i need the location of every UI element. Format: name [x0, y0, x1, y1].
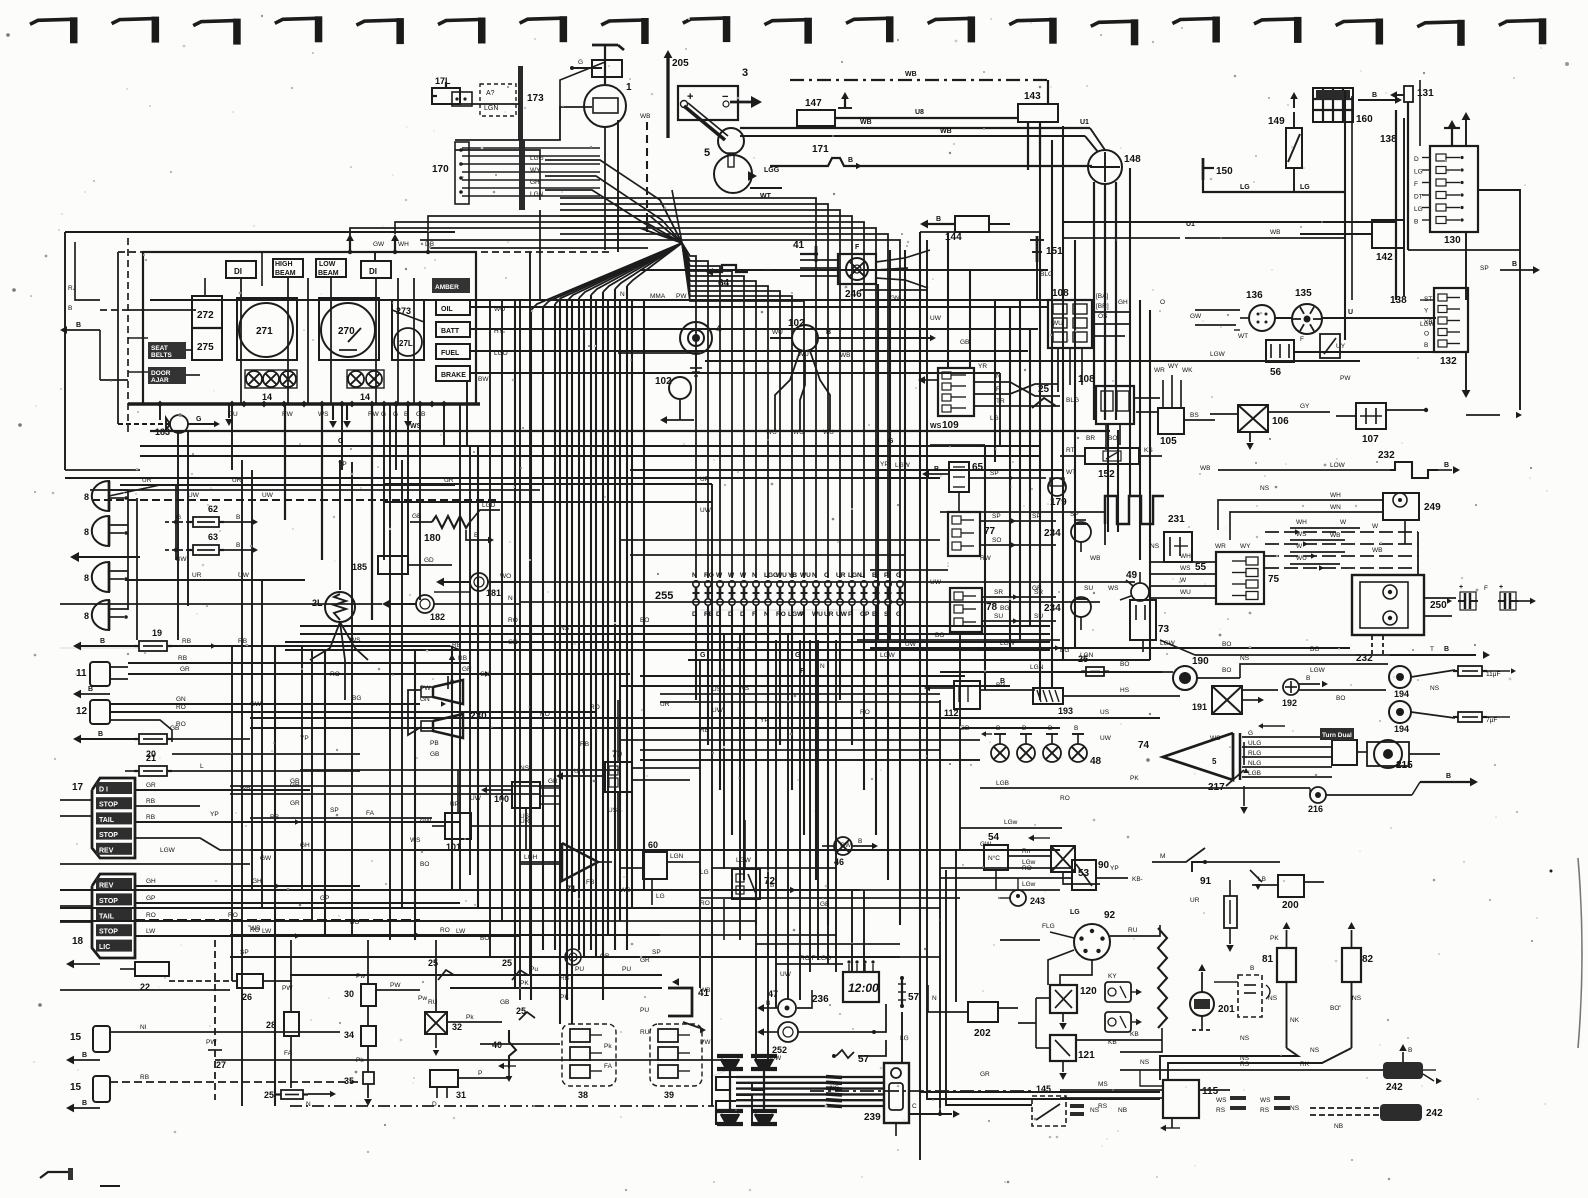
svg-text:GB: GB	[960, 339, 969, 346]
svg-text:C: C	[912, 1103, 917, 1110]
svg-text:LGW: LGW	[1420, 321, 1436, 328]
svg-text:SP: SP	[992, 513, 1001, 520]
svg-text:RO: RO	[1060, 795, 1070, 802]
svg-text:115: 115	[1202, 1086, 1219, 1097]
svg-text:BO: BO	[935, 632, 944, 639]
svg-text:60: 60	[648, 840, 658, 850]
svg-text:GH: GH	[252, 878, 262, 885]
svg-text:RO: RO	[590, 704, 600, 711]
svg-text:171: 171	[812, 144, 829, 155]
svg-text:B: B	[1074, 725, 1078, 732]
svg-text:GR: GR	[980, 1071, 990, 1078]
svg-text:WY: WY	[1168, 363, 1179, 370]
svg-text:YB: YB	[788, 572, 797, 579]
svg-text:RO: RO	[776, 611, 786, 618]
svg-text:UH: UH	[574, 768, 584, 775]
svg-text:LG: LG	[1414, 206, 1423, 213]
svg-text:D: D	[1414, 156, 1419, 163]
svg-text:102: 102	[655, 376, 672, 387]
svg-text:FA: FA	[366, 810, 375, 817]
svg-text:BO: BO	[1108, 435, 1117, 442]
svg-text:B: B	[1424, 342, 1428, 349]
svg-text:FUEL: FUEL	[441, 350, 460, 357]
svg-text:138: 138	[1390, 295, 1407, 306]
svg-text:PW: PW	[676, 293, 687, 300]
svg-text:B: B	[936, 216, 941, 223]
svg-text:PW: PW	[420, 685, 431, 692]
svg-text:LG: LG	[1300, 184, 1310, 191]
svg-text:WK: WK	[1182, 367, 1193, 374]
svg-text:NB: NB	[1334, 1123, 1343, 1130]
svg-text:O: O	[1424, 331, 1429, 338]
svg-text:FA: FA	[604, 1063, 613, 1070]
svg-text:N: N	[820, 663, 825, 670]
svg-text:NS: NS	[1268, 995, 1278, 1002]
svg-text:U: U	[1348, 309, 1353, 316]
svg-text:UW: UW	[780, 971, 792, 978]
svg-text:BR: BR	[1086, 435, 1095, 442]
svg-text:NS: NS	[1240, 1035, 1250, 1042]
svg-text:UW: UW	[188, 492, 200, 499]
svg-text:STOP: STOP	[99, 832, 118, 839]
svg-text:90: 90	[1098, 860, 1110, 871]
svg-text:18: 18	[72, 936, 84, 947]
svg-text:LGW: LGW	[1000, 640, 1016, 647]
svg-text:WY: WY	[530, 167, 541, 174]
svg-text:132: 132	[1440, 356, 1457, 367]
svg-text:MMA: MMA	[650, 293, 666, 300]
svg-text:112: 112	[944, 708, 959, 718]
svg-text:G: G	[896, 572, 901, 579]
svg-text:LGN: LGN	[530, 191, 544, 198]
svg-text:DOOR: DOOR	[151, 370, 171, 377]
svg-text:RB: RB	[146, 814, 155, 821]
svg-text:GH: GH	[146, 878, 156, 885]
svg-text:LGW: LGW	[1310, 667, 1326, 674]
svg-text:149: 149	[1268, 116, 1285, 127]
svg-text:255: 255	[655, 590, 673, 602]
svg-text:GY: GY	[1300, 403, 1310, 410]
svg-text:F: F	[1484, 585, 1488, 592]
svg-text:RO: RO	[860, 709, 870, 716]
svg-text:WU: WU	[800, 572, 811, 579]
svg-text:BO: BO	[420, 861, 429, 868]
svg-text:236: 236	[812, 994, 829, 1005]
svg-text:LGB: LGB	[996, 780, 1009, 787]
svg-text:UR: UR	[824, 611, 834, 618]
svg-text:WB: WB	[940, 128, 952, 135]
svg-text:G: G	[700, 652, 706, 659]
svg-text:UR: UR	[836, 572, 846, 579]
svg-text:W: W	[1180, 577, 1187, 584]
svg-text:LG: LG	[1070, 909, 1080, 916]
svg-text:108: 108	[1078, 374, 1095, 385]
svg-text:NK: NK	[1290, 1017, 1300, 1024]
svg-text:105: 105	[1160, 436, 1177, 447]
svg-text:B: B	[82, 1100, 87, 1107]
svg-text:WS: WS	[930, 423, 942, 430]
svg-text:GW: GW	[770, 1055, 782, 1062]
svg-text:147: 147	[805, 98, 822, 109]
svg-text:Rn: Rn	[1022, 848, 1031, 855]
svg-text:RW: RW	[282, 411, 294, 418]
svg-text:15: 15	[70, 1032, 82, 1043]
svg-text:+: +	[1499, 584, 1503, 591]
svg-text:NS: NS	[560, 625, 570, 632]
svg-text:PU: PU	[640, 1007, 649, 1014]
svg-text:UR: UR	[1190, 897, 1200, 904]
svg-text:NS: NS	[1150, 543, 1160, 550]
svg-text:LGN: LGN	[484, 105, 498, 112]
svg-text:WB: WB	[1330, 532, 1340, 539]
svg-text:ULG: ULG	[1248, 740, 1261, 747]
svg-text:WS: WS	[1180, 565, 1191, 572]
svg-text:D: D	[728, 611, 733, 618]
svg-text:MS: MS	[1098, 1081, 1108, 1088]
svg-text:NS: NS	[1260, 485, 1270, 492]
svg-text:US: US	[1100, 709, 1110, 716]
svg-text:BW: BW	[478, 376, 489, 383]
svg-text:GH: GH	[1118, 299, 1128, 306]
svg-text:LGB: LGB	[1248, 770, 1261, 777]
svg-text:B: B	[872, 611, 877, 618]
svg-text:7μF: 7μF	[1486, 717, 1497, 724]
svg-text:LOW: LOW	[1330, 462, 1346, 469]
svg-text:RO: RO	[176, 704, 186, 711]
svg-text:GB: GB	[430, 751, 439, 758]
svg-text:48: 48	[1090, 756, 1102, 767]
svg-text:B: B	[82, 1052, 87, 1059]
svg-text:BG: BG	[352, 695, 361, 702]
svg-text:182: 182	[430, 612, 445, 622]
svg-text:RB: RB	[580, 741, 589, 748]
svg-text:REV: REV	[99, 847, 114, 854]
svg-text:LGW: LGW	[880, 652, 896, 659]
svg-text:WU: WU	[772, 329, 783, 336]
svg-text:41: 41	[793, 240, 805, 251]
svg-text:192: 192	[1282, 698, 1297, 708]
svg-text:B: B	[236, 514, 240, 521]
svg-text:B: B	[1372, 92, 1377, 99]
svg-text:152: 152	[1098, 469, 1115, 480]
svg-text:G: G	[196, 416, 202, 423]
svg-text:5: 5	[1212, 757, 1217, 766]
svg-text:25: 25	[264, 1090, 274, 1100]
svg-text:WS: WS	[1108, 585, 1119, 592]
svg-text:NS: NS	[1310, 1047, 1320, 1054]
svg-text:NS: NS	[740, 685, 750, 692]
svg-text:121: 121	[1078, 1050, 1095, 1061]
svg-text:RLG: RLG	[1248, 750, 1261, 757]
svg-text:107: 107	[1362, 434, 1379, 445]
svg-text:W: W	[740, 572, 747, 579]
svg-text:NS: NS	[1140, 1059, 1150, 1066]
svg-text:U8: U8	[915, 109, 924, 116]
svg-text:1: 1	[626, 82, 632, 93]
svg-text:194: 194	[1394, 724, 1409, 734]
svg-text:B: B	[1512, 261, 1517, 268]
svg-text:11: 11	[76, 668, 87, 679]
svg-text:W: W	[728, 572, 735, 579]
svg-text:GR: GR	[548, 778, 558, 785]
svg-text:92: 92	[1104, 910, 1116, 921]
svg-text:UW: UW	[930, 315, 942, 322]
svg-text:232: 232	[1378, 450, 1395, 461]
svg-text:Pk: Pk	[604, 1043, 612, 1050]
svg-text:T: T	[1430, 646, 1434, 653]
svg-text:WR: WR	[1215, 543, 1226, 550]
svg-text:UW: UW	[930, 579, 942, 586]
svg-text:150: 150	[1216, 166, 1233, 177]
svg-text:KS: KS	[1144, 447, 1153, 454]
svg-text:G: G	[1248, 730, 1253, 737]
svg-text:RB: RB	[700, 727, 709, 734]
svg-text:WR: WR	[1154, 367, 1165, 374]
svg-text:BG: BG	[1060, 647, 1069, 654]
svg-text:U1: U1	[1080, 119, 1089, 126]
svg-text:19: 19	[152, 628, 162, 638]
svg-text:P: P	[478, 1070, 482, 1077]
svg-text:OS: OS	[1098, 313, 1108, 320]
svg-text:KB-: KB-	[1132, 876, 1143, 883]
svg-text:N°C: N°C	[988, 854, 1000, 862]
svg-text:YP: YP	[760, 717, 769, 724]
svg-text:WB: WB	[860, 119, 872, 126]
svg-text:SP: SP	[330, 807, 339, 814]
svg-text:81: 81	[1262, 954, 1274, 965]
svg-text:UW: UW	[836, 611, 848, 618]
svg-text:193: 193	[1058, 706, 1073, 716]
svg-text:UW: UW	[470, 795, 482, 802]
svg-text:PW: PW	[390, 982, 401, 989]
svg-text:B: B	[872, 572, 877, 579]
svg-text:PU: PU	[575, 966, 584, 973]
svg-text:8: 8	[84, 611, 89, 621]
svg-text:8: 8	[84, 573, 89, 583]
svg-text:100: 100	[494, 794, 509, 804]
svg-text:NB: NB	[1118, 1107, 1127, 1114]
svg-text:63: 63	[208, 532, 218, 542]
svg-text:RT: RT	[1066, 447, 1075, 454]
svg-text:LG: LG	[656, 893, 665, 900]
svg-text:NS: NS	[1290, 1105, 1300, 1112]
svg-text:56: 56	[1270, 367, 1282, 378]
svg-text:WY: WY	[1240, 543, 1251, 550]
svg-text:DI: DI	[234, 267, 242, 276]
svg-text:LGW: LGW	[895, 462, 911, 469]
svg-text:LW: LW	[456, 928, 466, 935]
svg-text:YP: YP	[300, 735, 309, 742]
svg-text:RS: RS	[1260, 1107, 1270, 1114]
svg-text:15: 15	[70, 1082, 82, 1093]
svg-text:BS: BS	[1190, 412, 1199, 419]
svg-text:242: 242	[1386, 1082, 1403, 1093]
svg-text:BO: BO	[480, 935, 489, 942]
svg-text:WU: WU	[1180, 589, 1191, 596]
svg-text:TAIL: TAIL	[99, 817, 115, 824]
svg-text:RO: RO	[440, 927, 450, 934]
svg-text:246: 246	[845, 289, 862, 300]
svg-text:135: 135	[1295, 288, 1312, 299]
svg-text:Y: Y	[1424, 308, 1429, 315]
svg-text:WU: WU	[812, 611, 823, 618]
svg-text:RS: RS	[1098, 1103, 1108, 1110]
svg-text:OIL: OIL	[441, 306, 453, 313]
svg-text:215: 215	[1396, 760, 1413, 771]
svg-text:RJ: RJ	[68, 285, 76, 292]
svg-text:STOP: STOP	[99, 898, 118, 905]
svg-text:Pw: Pw	[418, 995, 427, 1002]
svg-text:GR: GR	[290, 778, 300, 785]
svg-text:WB: WB	[840, 352, 850, 359]
svg-text:GB: GB	[412, 513, 421, 520]
svg-text:8: 8	[84, 492, 89, 502]
svg-text:WN: WN	[1330, 504, 1341, 511]
svg-text:PU: PU	[622, 966, 631, 973]
svg-text:GN: GN	[890, 295, 900, 302]
svg-text:SR: SR	[994, 589, 1003, 596]
svg-text:N: N	[752, 572, 757, 579]
svg-text:SP: SP	[990, 470, 999, 477]
svg-text:N: N	[306, 1101, 311, 1108]
svg-text:FLG: FLG	[1042, 923, 1055, 930]
svg-text:202: 202	[974, 1028, 991, 1039]
svg-text:GW: GW	[373, 241, 385, 248]
svg-text:LG: LG	[1240, 184, 1250, 191]
svg-text:GR: GR	[180, 666, 190, 673]
svg-text:NS: NS	[1090, 1107, 1100, 1114]
svg-text:275: 275	[197, 342, 214, 353]
svg-text:27L: 27L	[399, 339, 413, 348]
svg-text:SEAT: SEAT	[151, 345, 168, 352]
svg-text:F: F	[855, 244, 860, 251]
svg-text:PW: PW	[282, 985, 293, 992]
svg-text:242: 242	[1426, 1108, 1443, 1119]
svg-text:2L: 2L	[312, 598, 323, 608]
svg-text:WS: WS	[410, 837, 421, 844]
svg-text:SU: SU	[1084, 585, 1093, 592]
svg-text:WB: WB	[1090, 555, 1100, 562]
svg-text:B: B	[1306, 675, 1310, 682]
svg-text:BATT: BATT	[441, 328, 460, 335]
svg-text:LGN: LGN	[670, 853, 684, 860]
svg-text:34: 34	[344, 1030, 354, 1040]
svg-text:N: N	[692, 572, 697, 579]
svg-text:73: 73	[1158, 624, 1170, 635]
svg-text:21: 21	[146, 753, 156, 763]
svg-text:LGw: LGw	[1022, 859, 1036, 866]
svg-text:W: W	[1340, 519, 1347, 526]
svg-text:GD: GD	[424, 557, 434, 564]
svg-text:GH: GH	[530, 179, 540, 186]
svg-text:270: 270	[338, 326, 355, 337]
svg-text:194: 194	[1394, 689, 1409, 699]
svg-text:W: W	[716, 572, 723, 579]
svg-text:SU: SU	[1034, 613, 1043, 620]
svg-text:35: 35	[344, 1076, 354, 1086]
svg-text:GP: GP	[860, 611, 870, 618]
svg-text:RS: RS	[1216, 1107, 1226, 1114]
svg-text:148: 148	[1124, 154, 1141, 165]
svg-text:UW: UW	[905, 641, 917, 648]
svg-text:GW: GW	[420, 818, 432, 825]
svg-text:YP: YP	[880, 461, 889, 468]
svg-text:UW: UW	[1100, 735, 1112, 742]
svg-text:160: 160	[1356, 114, 1373, 125]
svg-text:D: D	[432, 1101, 437, 1108]
svg-text:3: 3	[742, 67, 748, 79]
svg-text:RB: RB	[560, 975, 569, 982]
svg-text:B: B	[1444, 462, 1449, 469]
svg-text:WB: WB	[905, 71, 917, 78]
svg-text:LW: LW	[146, 928, 156, 935]
svg-text:UW: UW	[700, 507, 712, 514]
svg-text:170: 170	[432, 164, 449, 175]
svg-text:BO: BO	[1120, 661, 1129, 668]
svg-text:BO: BO	[350, 919, 359, 926]
svg-text:GR: GR	[146, 782, 156, 789]
svg-text:GW: GW	[840, 842, 852, 849]
svg-text:GB: GB	[600, 953, 609, 960]
svg-text:216: 216	[1308, 804, 1323, 814]
svg-text:RK: RK	[1300, 1061, 1310, 1068]
svg-text:239: 239	[864, 1112, 881, 1123]
svg-text:WS: WS	[1216, 1097, 1227, 1104]
svg-text:DT: DT	[1414, 194, 1423, 201]
svg-text:243: 243	[1030, 896, 1045, 906]
svg-text:DI: DI	[369, 267, 377, 276]
svg-text:RU: RU	[640, 1029, 650, 1036]
svg-text:32: 32	[452, 1022, 462, 1032]
svg-text:B: B	[98, 731, 103, 738]
svg-text:B: B	[848, 157, 853, 164]
svg-text:B: B	[100, 638, 105, 645]
svg-text:M: M	[1160, 853, 1165, 860]
svg-text:N: N	[620, 291, 625, 298]
svg-text:27: 27	[216, 1060, 226, 1070]
svg-text:Pu: Pu	[530, 966, 538, 973]
svg-text:AJAR: AJAR	[151, 377, 169, 384]
svg-text:RO: RO	[508, 617, 518, 624]
svg-text:WH: WH	[1180, 553, 1191, 560]
svg-text:31: 31	[456, 1090, 466, 1100]
svg-text:B: B	[1414, 219, 1418, 226]
svg-text:US: US	[608, 807, 618, 814]
svg-text:GU: GU	[228, 411, 238, 418]
svg-text:G: G	[578, 59, 583, 66]
svg-text:G: G	[896, 611, 901, 618]
svg-text:LGG: LGG	[530, 155, 544, 162]
svg-text:WT: WT	[760, 193, 772, 200]
svg-text:25: 25	[502, 958, 512, 968]
svg-text:5: 5	[704, 147, 710, 159]
svg-text:NS: NS	[1352, 995, 1362, 1002]
svg-text:12: 12	[76, 706, 88, 717]
svg-text:205: 205	[672, 58, 689, 69]
svg-text:62: 62	[208, 504, 218, 514]
svg-text:BEAM: BEAM	[318, 270, 339, 277]
svg-text:GW: GW	[980, 841, 992, 848]
svg-text:RO: RO	[146, 912, 156, 919]
svg-text:U: U	[860, 572, 865, 579]
svg-text:185: 185	[352, 562, 367, 572]
svg-text:LOW: LOW	[319, 261, 336, 268]
svg-text:BELTS: BELTS	[151, 352, 172, 359]
svg-text:NS: NS	[830, 1085, 840, 1092]
svg-text:BG: BG	[1310, 646, 1319, 653]
svg-text:30: 30	[344, 989, 354, 999]
svg-text:LGD: LGD	[482, 502, 496, 509]
